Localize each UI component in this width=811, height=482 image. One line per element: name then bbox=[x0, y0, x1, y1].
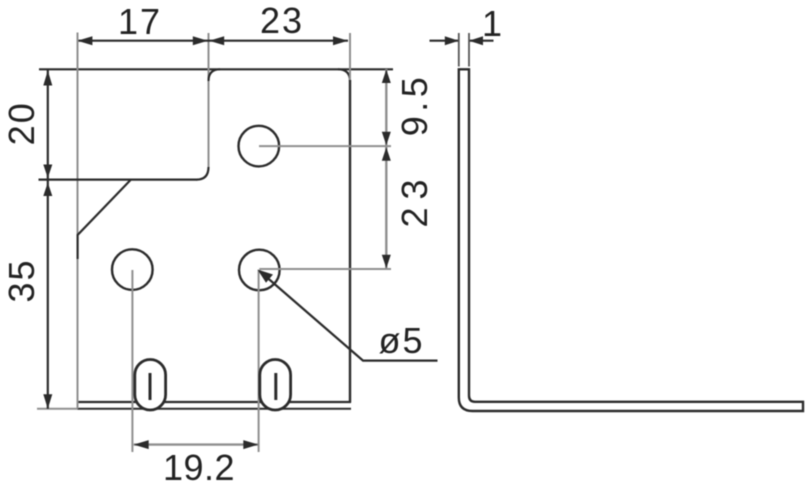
svg-text:19.2: 19.2 bbox=[163, 447, 235, 482]
bottom dimension line 19.2 bbox=[134, 443, 259, 445]
center line of bottom-left hole (down) bbox=[131, 270, 133, 452]
step vertical line with top extension bbox=[208, 33, 210, 168]
right dimension line bbox=[385, 69, 387, 269]
hole bottom-left (132.3,269.6) bbox=[112, 249, 153, 290]
front view: plate top edge bbox=[39, 68, 393, 70]
extension line left of top dim bbox=[77, 33, 79, 70]
left dim bottom arrow bbox=[43, 394, 52, 409]
svg-text:23: 23 bbox=[394, 171, 435, 227]
svg-text:23: 23 bbox=[260, 0, 304, 41]
leader arrowhead bbox=[258, 270, 274, 283]
front view: right edge bbox=[349, 80, 351, 403]
front view: top-right corner arc bbox=[338, 69, 350, 81]
thickness extension lines bbox=[458, 33, 460, 67]
top dim right arrow bbox=[333, 36, 348, 45]
front view: bottom edge extended bbox=[78, 408, 352, 410]
slot right center bar bbox=[274, 373, 277, 400]
top dim middle arrows bbox=[193, 36, 208, 45]
right dim middle arrows bbox=[382, 132, 391, 146]
right dim bottom arrow bbox=[382, 255, 391, 268]
slot tab left bbox=[135, 360, 166, 411]
leader line for hole diameter bbox=[260, 271, 438, 361]
front view: bottom fold line bbox=[78, 401, 352, 403]
svg-text:9.5: 9.5 bbox=[394, 73, 435, 137]
svg-text:1: 1 bbox=[482, 3, 504, 44]
svg-text:17: 17 bbox=[118, 1, 162, 42]
thickness dim line right segment bbox=[469, 40, 494, 42]
top dimension line bbox=[77, 40, 348, 42]
svg-text:20: 20 bbox=[1, 101, 42, 145]
hole top (258.8,146.1) bbox=[238, 126, 279, 167]
left dim top arrow bbox=[43, 71, 52, 86]
svg-text:35: 35 bbox=[1, 258, 42, 302]
center line of bottom-right hole (down) bbox=[258, 270, 260, 452]
top dim left arrow bbox=[77, 36, 92, 45]
left dimension line bbox=[47, 69, 49, 408]
slot left center bar bbox=[149, 373, 152, 400]
front view: left edge bbox=[77, 69, 79, 409]
left dim middle arrows bbox=[43, 165, 52, 179]
thickness arrows bbox=[445, 36, 459, 45]
slot tab right bbox=[260, 360, 291, 411]
bottom dim right arrow bbox=[243, 440, 258, 449]
step corner arc bbox=[197, 167, 209, 180]
svg-text:ø5: ø5 bbox=[378, 320, 424, 361]
center line of bottom-right hole (right) bbox=[259, 268, 391, 270]
step horizontal line bbox=[39, 179, 198, 181]
step hook arc to top edge bbox=[209, 69, 221, 81]
thickness dim line left segment bbox=[430, 40, 459, 42]
center line of top hole (right) bbox=[259, 145, 391, 147]
bend diagonal bbox=[78, 180, 131, 259]
extension line right of top dim bbox=[349, 33, 351, 80]
hole bottom-right (259.3,270) bbox=[239, 250, 280, 291]
extension of bottom edge (left) bbox=[37, 408, 78, 410]
bottom dim left arrow bbox=[134, 440, 149, 449]
right dim top arrow bbox=[382, 70, 391, 84]
side view L profile bbox=[459, 69, 803, 411]
